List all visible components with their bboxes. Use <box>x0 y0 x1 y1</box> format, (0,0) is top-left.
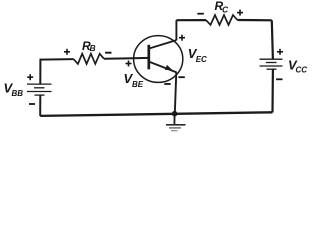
minus sign V_CC <box>276 78 282 80</box>
minus sign V_EC <box>178 76 184 78</box>
plus sign left of R_B <box>64 49 70 55</box>
wire: left vertical V_BB bottom <box>39 95 41 116</box>
battery V_BB <box>27 84 52 95</box>
wire: R_B to transistor base <box>104 57 149 60</box>
transistor Q1 circle <box>134 36 183 83</box>
wire: top rail left of R_C <box>176 19 206 21</box>
svg-text:C: C <box>222 4 229 14</box>
svg-text:BB: BB <box>12 89 24 98</box>
transistor Q1 collector line <box>150 40 177 48</box>
transistor Q1 base bar <box>147 45 150 70</box>
wire: right vertical V_CC bottom <box>271 69 274 112</box>
wire: top rail right of R_C <box>237 19 271 21</box>
transistor Q1 emitter line <box>150 62 177 73</box>
plus sign V_BB <box>27 74 33 80</box>
resistor R_B <box>74 54 105 64</box>
svg-text:B: B <box>90 43 96 53</box>
wire: emitter vertical down to rail <box>175 72 177 114</box>
plus sign V_BE <box>126 61 132 67</box>
plus sign V_CC <box>277 49 283 55</box>
svg-text:BE: BE <box>132 80 144 89</box>
wire: right vertical V_CC top <box>272 20 273 59</box>
node: emitter/ground junction dot <box>172 111 178 117</box>
plus sign V_EC <box>179 35 185 41</box>
wire: top-left horizontal from V_BB to R_B <box>40 58 74 61</box>
minus sign V_BE <box>164 83 170 85</box>
wire: collector vertical up to top rail <box>175 20 177 40</box>
resistor R_C <box>206 15 237 25</box>
transistor Q1 emitter arrow <box>165 65 172 70</box>
minus sign right of R_B <box>105 52 111 54</box>
battery V_CC <box>260 59 283 69</box>
minus sign V_BB <box>29 103 35 105</box>
minus sign left of R_C <box>197 13 203 15</box>
svg-text:EC: EC <box>196 55 207 64</box>
svg-text:CC: CC <box>296 66 308 75</box>
wire: left vertical V_BB top <box>39 59 41 85</box>
ground <box>166 114 186 131</box>
wire: bottom rail <box>40 112 272 116</box>
plus sign right of R_C <box>237 10 243 16</box>
